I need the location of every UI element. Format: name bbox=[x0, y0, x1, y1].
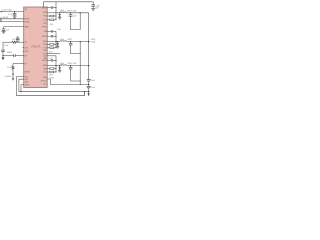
divider cluster 2 bbox=[47, 42, 56, 54]
ground top cap bbox=[91, 9, 95, 11]
svg-text:FB3: FB3 bbox=[44, 68, 47, 70]
svg-text:SW2: SW2 bbox=[43, 41, 47, 43]
wire SW2 / VOUT2 bbox=[47, 41, 60, 43]
svg-text:IN3: IN3 bbox=[44, 58, 47, 60]
wire LDO pin bbox=[47, 55, 56, 57]
wire PG1 loop outer bbox=[16, 77, 23, 96]
svg-text:GND: GND bbox=[43, 77, 48, 79]
capacitor C-top 2.2uF bbox=[91, 2, 99, 10]
wire BST1 feed from rail bbox=[55, 2, 57, 13]
pin labels right column bbox=[41, 7, 48, 85]
wire RUN1 bbox=[1, 18, 24, 20]
ground arrow RT bbox=[12, 78, 14, 81]
wire VIN rail bbox=[1, 11, 24, 13]
capacitor C-big2 right bbox=[87, 81, 95, 89]
wire RT bbox=[13, 63, 24, 65]
svg-text:VOUT2: VOUT2 bbox=[67, 39, 72, 41]
wire IN2 pin bbox=[47, 30, 51, 32]
svg-text:VOUT3 1.8V: VOUT3 1.8V bbox=[67, 63, 76, 65]
svg-text:22µF: 22µF bbox=[73, 15, 77, 17]
wire PG2 loop inner bbox=[19, 79, 24, 91]
diode D1 bbox=[59, 12, 61, 17]
resistor R-VC zigzag bbox=[12, 41, 17, 43]
capacitor series in SS wire bbox=[14, 54, 16, 57]
svg-text:FB2: FB2 bbox=[44, 44, 47, 46]
svg-text:28.0k: 28.0k bbox=[49, 52, 53, 54]
svg-text:RUN1: RUN1 bbox=[25, 19, 30, 21]
wire BIAS bbox=[4, 26, 24, 28]
node RT dot bbox=[12, 74, 13, 75]
capacitor C-big1 right bbox=[87, 80, 95, 83]
wire staple 1 bbox=[71, 13, 81, 30]
inductor L2 bbox=[60, 40, 67, 43]
svg-text:RUN2: RUN2 bbox=[25, 21, 30, 23]
svg-text:PG1: PG1 bbox=[43, 23, 47, 25]
svg-text:BST1: BST1 bbox=[42, 7, 47, 9]
divider cluster 1 bbox=[47, 13, 56, 26]
ground D3 bbox=[58, 70, 61, 72]
svg-text:22µF: 22µF bbox=[91, 87, 95, 89]
pin stub ILIM bbox=[23, 47, 24, 49]
divider cluster 3 bbox=[47, 66, 56, 77]
svg-text:SW3: SW3 bbox=[43, 65, 47, 67]
svg-text:0.1µF: 0.1µF bbox=[57, 29, 61, 31]
resistor R-T bbox=[12, 66, 14, 70]
ground arrow right bbox=[88, 93, 90, 96]
wire IC top feed bbox=[44, 2, 93, 7]
svg-text:SS2: SS2 bbox=[43, 50, 46, 52]
pin stub TRK bbox=[23, 50, 24, 52]
svg-text:1µF: 1µF bbox=[6, 30, 9, 32]
svg-text:40.2k: 40.2k bbox=[50, 24, 54, 26]
ground D2 bbox=[56, 46, 59, 48]
svg-text:VC3: VC3 bbox=[43, 72, 47, 74]
svg-text:GND: GND bbox=[25, 82, 30, 84]
inductor L3 bbox=[60, 64, 67, 67]
wire bottom bus lower bbox=[16, 92, 84, 96]
svg-text:VC1: VC1 bbox=[43, 19, 47, 21]
node SS junction bbox=[2, 55, 3, 56]
svg-text:SW1: SW1 bbox=[43, 12, 47, 14]
ground bias cap bbox=[2, 32, 6, 34]
svg-text:VC2: VC2 bbox=[43, 48, 47, 50]
wire staple 2 bbox=[71, 45, 81, 54]
svg-text:ILIM: ILIM bbox=[25, 47, 29, 49]
node VIN terminal bbox=[0, 11, 1, 12]
svg-text:2.2µF: 2.2µF bbox=[96, 5, 100, 7]
svg-text:VIN 4V TO 36V: VIN 4V TO 36V bbox=[2, 10, 12, 12]
svg-text:VOUT1 3.3V: VOUT1 3.3V bbox=[67, 10, 76, 12]
svg-text:22µF: 22µF bbox=[91, 80, 95, 82]
wire GND bus bbox=[47, 79, 88, 85]
svg-text:FB1: FB1 bbox=[44, 16, 47, 18]
wire staple 3 bbox=[71, 69, 81, 81]
svg-text:86.6k: 86.6k bbox=[49, 74, 53, 76]
svg-text:f = 500kHz: f = 500kHz bbox=[4, 76, 12, 78]
capacitor C-VC phase bbox=[16, 39, 20, 42]
wire VC left drop bbox=[2, 42, 4, 50]
ground input cap bbox=[13, 16, 17, 18]
svg-text:VIN: VIN bbox=[25, 9, 28, 11]
wire BST2 bbox=[47, 35, 51, 37]
wire VOUT1 corner down bbox=[88, 13, 90, 80]
ground D1 bbox=[58, 18, 61, 20]
capacitor C-OUT2 bbox=[69, 41, 73, 45]
svg-text:4.7µF: 4.7µF bbox=[8, 14, 12, 16]
svg-text:10k: 10k bbox=[12, 39, 15, 41]
svg-text:SYNC: SYNC bbox=[25, 84, 31, 86]
wire SW3 / VOUT3 bbox=[47, 65, 60, 67]
svg-text:41.2k: 41.2k bbox=[7, 67, 11, 69]
svg-text:VOUT2: VOUT2 bbox=[91, 39, 96, 41]
wire RT down bbox=[12, 69, 14, 78]
wire BST1 bbox=[47, 7, 51, 9]
svg-text:BST2: BST2 bbox=[42, 36, 47, 38]
wire cap to gnd bbox=[88, 88, 90, 94]
svg-text:SYNC2: SYNC2 bbox=[41, 81, 47, 83]
svg-text:SGND: SGND bbox=[25, 71, 31, 73]
svg-text:BST3: BST3 bbox=[42, 60, 47, 62]
svg-text:IN2: IN2 bbox=[44, 31, 47, 33]
pin labels left column bbox=[25, 9, 31, 87]
diode D3 bbox=[59, 65, 61, 70]
node input cap junction bbox=[14, 11, 15, 12]
svg-text:PG2: PG2 bbox=[25, 79, 29, 81]
node VOUT3 junction bbox=[88, 65, 89, 66]
capacitor C-BST1 bbox=[51, 6, 52, 8]
capacitor C-IN 4.7uF bbox=[8, 12, 16, 17]
op-amp U1 LT3507A IC body bbox=[24, 7, 48, 88]
capacitor C-BIAS 1uF bbox=[2, 27, 9, 32]
wire SW1 / VOUT1 bbox=[47, 12, 60, 14]
node VOUT2 junction bbox=[88, 41, 89, 42]
capacitor C-OUT1 bbox=[69, 12, 77, 17]
inductor L1 bbox=[60, 11, 67, 14]
svg-text:2.2µF: 2.2µF bbox=[48, 58, 52, 60]
wire SS bbox=[3, 55, 14, 57]
ground inverted above C-VC bbox=[16, 37, 20, 39]
wire right rail mid bbox=[79, 42, 81, 85]
svg-text:LT3507A: LT3507A bbox=[31, 46, 41, 49]
diode D2 bbox=[57, 41, 59, 46]
ground arrow below bbox=[2, 56, 4, 60]
svg-text:SYNC: SYNC bbox=[42, 26, 48, 28]
wire RUN2 bbox=[1, 21, 24, 23]
capacitor C-SS series bbox=[1, 50, 5, 56]
wire OUT pin bbox=[47, 53, 60, 55]
wire VC bbox=[3, 41, 12, 43]
wire BST3 bbox=[47, 59, 51, 61]
svg-text:0.1µF: 0.1µF bbox=[4, 45, 8, 47]
node left terminal bar bbox=[0, 17, 2, 22]
capacitor C-OUT3 bbox=[69, 65, 73, 69]
wire SYNC stub bbox=[21, 85, 24, 92]
wire bottom bus upper bbox=[19, 91, 89, 93]
svg-text:1000pF: 1000pF bbox=[7, 52, 12, 54]
